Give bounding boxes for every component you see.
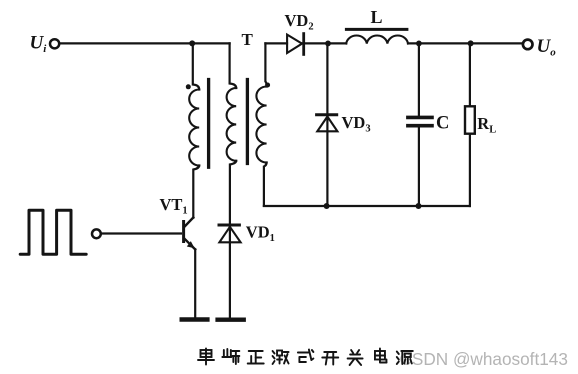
drive input terminal xyxy=(92,229,101,238)
wire node D to output terminal xyxy=(471,42,523,44)
resistor RL xyxy=(465,106,475,133)
output return rail wire xyxy=(264,205,470,207)
caption char 7 xyxy=(348,350,363,365)
svg-text:Ui: Ui xyxy=(30,33,48,56)
phase dot W3 xyxy=(265,83,270,88)
caption char 1 xyxy=(198,349,214,365)
wire VD1 anode down xyxy=(229,226,231,317)
svg-text:VT1: VT1 xyxy=(160,195,188,217)
inductor L core bar xyxy=(346,28,407,31)
ground bar under VD1 xyxy=(218,318,244,322)
wire VD2 cathode to L xyxy=(302,42,346,44)
caption char 4 xyxy=(273,351,289,365)
svg-text:VD2: VD2 xyxy=(285,11,314,33)
wire W3 top to VD2 anode xyxy=(265,42,287,44)
transformer core bar left xyxy=(207,80,210,168)
wire node B to VD3 xyxy=(326,43,328,206)
caption char 8 xyxy=(375,349,387,363)
ground bar under VT1 emitter xyxy=(182,317,208,321)
wire W3 bottom lead down to output return rail xyxy=(264,163,267,206)
node B junction dot (VD3 top) xyxy=(325,41,331,47)
wire node D to RL xyxy=(469,43,471,106)
transistor VT1 xyxy=(184,218,196,250)
square wave source symbol xyxy=(20,210,86,254)
output terminal Uo xyxy=(523,40,533,50)
wire Ui to node A xyxy=(59,42,192,44)
wire capacitor to rail xyxy=(418,128,420,207)
transformer T reset winding W2 xyxy=(227,88,237,161)
caption char 6 xyxy=(322,352,338,365)
wire L to output node xyxy=(408,42,471,44)
svg-text:VD3: VD3 xyxy=(342,113,371,135)
transformer T secondary winding W3 xyxy=(256,87,266,163)
diode VD3 xyxy=(317,115,338,132)
wire VT1 emitter down xyxy=(194,249,196,317)
caption char 2 xyxy=(222,349,239,364)
wire node C to capacitor xyxy=(418,43,420,115)
wire W1 top lead xyxy=(193,43,199,89)
input terminal Ui xyxy=(50,39,59,48)
node C junction dot (capacitor top) xyxy=(416,41,422,47)
node D junction dot (RL top) xyxy=(468,40,474,46)
wire node A to W2 top xyxy=(192,42,229,44)
svg-text:CSDN @whaosoft143: CSDN @whaosoft143 xyxy=(400,349,568,369)
wire W3 top lead xyxy=(265,43,266,86)
diode VD2 xyxy=(287,34,304,55)
wire drive terminal to VT1 base xyxy=(101,232,181,234)
node A junction dot xyxy=(189,40,195,46)
caption char 9 xyxy=(397,351,413,364)
rail junction dot at VD3 xyxy=(324,203,330,209)
wire W1 bottom lead to VT1 collector xyxy=(193,166,199,218)
transformer core bar right xyxy=(246,80,249,164)
svg-text:VD1: VD1 xyxy=(246,223,275,245)
diode VD1 xyxy=(219,225,241,242)
capacitor C xyxy=(408,117,432,125)
rail junction dot at C xyxy=(416,203,422,209)
inductor L xyxy=(346,36,408,44)
svg-text:L: L xyxy=(371,7,383,27)
svg-text:Uo: Uo xyxy=(537,36,557,59)
phase dot W1 xyxy=(186,84,191,89)
wire W2 bottom lead to VD1 xyxy=(230,161,236,226)
caption char 5 xyxy=(298,350,314,363)
wire W2 top lead xyxy=(230,43,237,88)
wire RL to rail xyxy=(469,134,471,206)
caption char 3 xyxy=(248,351,264,364)
svg-text:C: C xyxy=(436,114,449,134)
svg-text:RL: RL xyxy=(477,114,496,136)
transformer T primary winding W1 xyxy=(189,90,199,166)
svg-text:T: T xyxy=(242,30,254,49)
